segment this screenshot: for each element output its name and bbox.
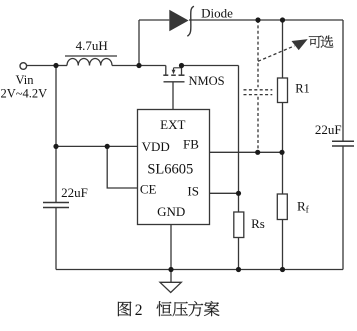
capacitor C3 optional feed-forward (dashed) [244, 20, 273, 152]
caption char 方 [188, 301, 203, 316]
node FB at R1/Rf [279, 150, 284, 155]
wire Rs bottom to ground rail [238, 238, 240, 270]
wire left rail lower (C1 bottom plate to bottom rail) [55, 208, 57, 270]
node switch (L1/D1/Q1 drain) [136, 63, 141, 68]
svg-text:CE: CE [140, 182, 157, 197]
node VDD/CE tie [105, 144, 110, 149]
svg-text:22uF: 22uF [61, 185, 88, 200]
input terminal Vin [20, 63, 27, 70]
svg-text:NMOS: NMOS [188, 74, 224, 88]
diode D1 [169, 10, 188, 31]
wire NMOS source to sense riser [182, 65, 239, 67]
svg-text:SL6605: SL6605 [147, 162, 193, 178]
wire inductor input [56, 65, 67, 67]
wire inductor to switch node [112, 65, 166, 67]
ground [160, 270, 181, 293]
node Q1 source [179, 63, 184, 68]
annotation arrow to optional cap [258, 46, 295, 62]
node input (Vin rail) [53, 63, 58, 68]
node ground at Rf [280, 267, 285, 272]
node output at C3 dashed tap [255, 17, 260, 22]
svg-text:Vin: Vin [16, 73, 35, 87]
node VDD rail left [53, 144, 58, 149]
svg-text:4.7uH: 4.7uH [76, 38, 108, 53]
wire output to R1 top [282, 20, 284, 78]
wire Rf bottom to ground rail [282, 220, 284, 270]
wire top rail to diode [139, 19, 169, 21]
wire GND lead of U1 [170, 225, 172, 270]
wire FB row [210, 151, 283, 153]
wire bottom ground rail [56, 269, 343, 271]
capacitor C1 22uF plates [43, 202, 69, 204]
annotation text 选 (optional) [321, 35, 334, 47]
wire R1 bottom to FB node [282, 103, 284, 195]
annotation text 可 (optional) [309, 36, 322, 48]
wire left rail upper (input node down to VDD row) [55, 66, 57, 147]
wire CE tie to VDD rail [107, 146, 138, 188]
node IS sense [236, 191, 241, 196]
svg-text:FB: FB [183, 137, 199, 152]
svg-text:IS: IS [187, 184, 199, 199]
node FB at dashed cap [255, 150, 260, 155]
transistor Q1 NMOS [163, 66, 184, 110]
svg-text:Diode: Diode [201, 6, 233, 21]
caption char 恒 [157, 301, 172, 316]
wire Vin terminal to input node [27, 65, 56, 67]
capacitor C2 22uF plates [332, 140, 354, 142]
wire switch node riser to diode anode [138, 20, 140, 66]
wire sense riser (NMOS source down to Rs) [238, 66, 240, 213]
svg-text:2: 2 [135, 302, 143, 319]
svg-text:Rs: Rs [251, 216, 265, 231]
wire VDD row [56, 145, 138, 147]
svg-text:EXT: EXT [160, 117, 185, 132]
svg-text:R1: R1 [295, 82, 310, 96]
wire left rail middle (VDD row down to C1 top plate) [55, 146, 57, 202]
svg-text:22uF: 22uF [315, 122, 342, 137]
node output at R1 top [280, 17, 285, 22]
node ground at U1 GND [168, 267, 173, 272]
wire IS row [210, 192, 239, 194]
svg-text:Rf: Rf [297, 199, 310, 216]
resistor R1 body [278, 78, 288, 103]
op-amp U1 SL6605 controller box [138, 110, 210, 225]
inductor L1 4.7uH [67, 58, 112, 65]
svg-text:2V~4.2V: 2V~4.2V [0, 87, 47, 101]
caption char 图 [118, 302, 131, 317]
resistor Rf body [277, 194, 287, 220]
resistor Rs body [234, 212, 244, 238]
caption char 案 [204, 301, 219, 316]
wire right rail lower (C2 bottom plate to bottom rail) [342, 146, 344, 270]
node ground at Rs [236, 267, 241, 272]
svg-text:GND: GND [157, 204, 185, 219]
wire right rail upper (output to C2 top plate) [342, 20, 344, 141]
caption char 压 [173, 302, 188, 316]
wire top rail diode cathode to output corner [189, 19, 343, 21]
svg-text:VDD: VDD [142, 139, 170, 154]
